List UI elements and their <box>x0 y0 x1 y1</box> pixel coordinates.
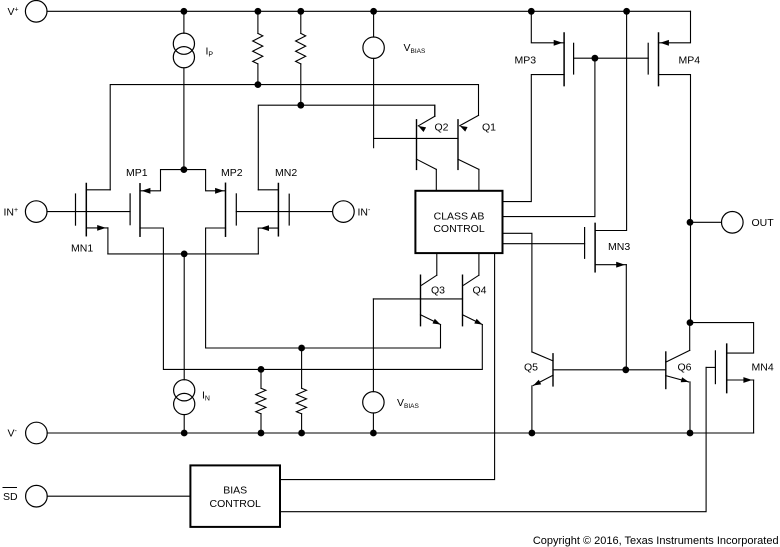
svg-text:CONTROL: CONTROL <box>210 498 261 510</box>
wire gate line to CLASS AB pin2 <box>503 58 595 216</box>
transistor Q3 with label <box>421 253 446 326</box>
svg-text:IN: IN <box>202 390 210 403</box>
svg-text:Q5: Q5 <box>524 362 538 374</box>
transistor MN1 with label <box>71 184 110 255</box>
transistor Q1 with label <box>458 115 496 190</box>
wire SD to BIAS CONTROL <box>47 495 190 497</box>
junction dot Q6 emitter to V- rail <box>687 430 694 437</box>
wire NMOS pair tail <box>108 253 258 255</box>
svg-text:VBIAS: VBIAS <box>397 397 419 410</box>
resistor R4 bottom-right <box>296 348 306 433</box>
svg-text:BIAS: BIAS <box>223 484 247 496</box>
svg-text:IN-: IN- <box>358 206 372 218</box>
svg-text:V+: V+ <box>8 6 19 18</box>
junction dot MN3 drain to V+ rail <box>623 8 630 15</box>
terminal V- with label <box>8 422 48 444</box>
wire node A bus (MN1 drain / R1 / Q1 emitter) <box>110 85 478 190</box>
wire Q3 Q4 base line <box>373 298 462 300</box>
voltage source VBIAS top <box>363 11 426 147</box>
transistor MN3 with label <box>585 11 631 370</box>
junction dot R2 to V+ rail <box>297 8 304 15</box>
transistor MN2 with label <box>258 167 297 254</box>
wire Q1 Q2 base line to VBIAS <box>374 137 458 139</box>
junction dot R3 to node D bus <box>258 366 265 373</box>
wire BIAS CONTROL to CLASS AB CONTROL <box>280 253 495 480</box>
svg-text:MN3: MN3 <box>608 241 630 253</box>
wire node D bus (MP1 drain / R3 / Q4 emitter) <box>163 228 482 369</box>
transistor MN4 with label <box>280 323 774 512</box>
svg-text:Q4: Q4 <box>473 285 487 297</box>
svg-text:Q2: Q2 <box>435 122 449 134</box>
resistor R1 top-left <box>253 11 263 84</box>
transistor Q2 with label <box>417 105 449 191</box>
resistor R2 top-right <box>296 11 306 105</box>
svg-text:Q1: Q1 <box>482 122 496 134</box>
transistor Q6 with label <box>666 323 692 433</box>
junction dot VBIAS bottom to V- rail <box>370 430 377 437</box>
svg-text:Q6: Q6 <box>678 362 692 374</box>
junction dot R4 to V- rail <box>298 430 305 437</box>
svg-text:MN4: MN4 <box>752 362 774 374</box>
resistor R3 bottom-left <box>256 369 266 433</box>
transistor MP2 with label <box>184 167 243 236</box>
junction dot Q6 collector / MN4 drain <box>687 319 694 326</box>
terminal OUT with label <box>722 212 775 234</box>
svg-text:CONTROL: CONTROL <box>433 223 484 235</box>
svg-text:MN2: MN2 <box>275 167 297 179</box>
junction dot V+/IP <box>181 8 188 15</box>
svg-text:CLASS AB: CLASS AB <box>434 210 485 222</box>
svg-text:Copyright © 2016, Texas Instru: Copyright © 2016, Texas Instruments Inco… <box>533 535 779 547</box>
junction dot IP to MP1/MP2 sources <box>181 166 188 173</box>
current source IP <box>173 11 213 169</box>
block CLASS AB CONTROL <box>415 191 502 253</box>
transistor MP4 with label <box>648 11 700 322</box>
junction dot IN to V- rail <box>181 430 188 437</box>
current source IN <box>174 254 210 433</box>
wire MN3 gate to CLASS AB pin4 <box>503 243 585 245</box>
svg-text:IN+: IN+ <box>4 206 19 218</box>
terminal IN- with label <box>333 201 371 223</box>
transistor Q5 with label <box>503 233 554 433</box>
terminal V+ with label <box>8 1 48 23</box>
svg-text:MP1: MP1 <box>126 167 148 179</box>
svg-text:SD: SD <box>3 491 18 503</box>
svg-text:V-: V- <box>8 428 18 440</box>
svg-text:OUT: OUT <box>752 217 775 229</box>
transistor Q4 with label <box>463 253 487 326</box>
wire IN+ gate line <box>47 211 130 213</box>
svg-text:MP4: MP4 <box>679 55 701 67</box>
junction dot R1 to V+ rail <box>255 8 262 15</box>
svg-text:Q3: Q3 <box>431 285 445 297</box>
junction dot R1 to node A bus <box>255 81 262 88</box>
wire V- rail <box>47 432 753 434</box>
junction dot MN3 source to Q5 Q6 bases <box>622 366 629 373</box>
svg-text:IP: IP <box>206 46 214 59</box>
terminal SD-bar with label <box>3 485 47 507</box>
terminal IN+ with label <box>4 201 48 223</box>
wire Q5 Q6 base line <box>553 369 666 371</box>
junction dot gate line <box>592 55 599 62</box>
wire MP3 MP4 gate line <box>574 57 649 59</box>
junction dot R4 to node C bus <box>298 345 305 352</box>
wire node C bus (MP2 drain / R4 / Q3 emitter) <box>206 228 441 348</box>
junction dot tail to IN <box>181 251 188 258</box>
wire node B bus (MN2 drain / R2 / Q2 emitter) <box>258 105 435 190</box>
wire V+ rail <box>47 10 691 12</box>
wire IN- gate line <box>236 211 332 213</box>
junction dot MP3 source to V+ rail <box>528 8 535 15</box>
junction dot OUT <box>687 219 694 226</box>
voltage source VBIAS bottom <box>363 299 420 433</box>
junction dot Q5 emitter to V- rail <box>529 430 536 437</box>
svg-text:MN1: MN1 <box>71 243 93 255</box>
transistor MP3 with label <box>503 11 574 201</box>
junction dot R2 to node B bus <box>297 102 304 109</box>
svg-text:VBIAS: VBIAS <box>404 42 426 55</box>
wire OUT lead <box>690 221 722 223</box>
junction dot R3 to V- rail <box>258 430 265 437</box>
junction dot V+/VBIAS top <box>370 8 377 15</box>
block BIAS CONTROL <box>190 465 280 527</box>
svg-text:MP2: MP2 <box>221 167 243 179</box>
svg-text:MP3: MP3 <box>515 55 537 67</box>
copyright text <box>533 535 779 547</box>
transistor MP1 with label <box>126 167 184 236</box>
